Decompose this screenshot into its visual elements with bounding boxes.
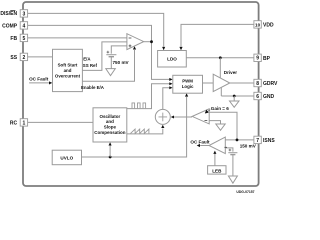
wire LDO output to BP pin9 (186, 57, 254, 59)
svg-text:Oscillator: Oscillator (100, 114, 121, 119)
node GND junction (233, 95, 236, 98)
summing node (155, 109, 170, 124)
wire DIS/EN pin3 to LDO (27, 13, 163, 46)
wire UVLO output (82, 97, 187, 157)
pin 8 GDRV (254, 79, 261, 86)
svg-text:VDD: VDD (263, 22, 274, 28)
svg-text:2: 2 (23, 55, 26, 61)
svg-text:7: 7 (256, 138, 259, 144)
pin 3 DIS/EN (20, 10, 27, 17)
block LDO (158, 51, 187, 68)
net OC Fault into soft start (29, 82, 49, 84)
node BP junction (219, 56, 222, 59)
wire oscillator ramp to summing node (127, 129, 163, 134)
svg-text:LEB: LEB (212, 169, 222, 174)
node ISNS junction (236, 139, 239, 142)
svg-text:Gain = 6: Gain = 6 (211, 106, 229, 111)
node E/A output junction (150, 40, 153, 43)
wire current sense amp to summing node (174, 116, 192, 118)
pin 1 RC (20, 119, 27, 126)
svg-text:Soft Start: Soft Start (58, 63, 78, 68)
svg-text:1: 1 (23, 120, 26, 126)
block soft start and overcurrent (53, 49, 83, 91)
wire PWM logic to driver (203, 82, 214, 84)
wire oscillator clock to PWM logic input 2 (127, 84, 170, 109)
driver U2 (213, 74, 230, 91)
svg-text:750 mV: 750 mV (113, 60, 130, 65)
wire E/A output (144, 41, 152, 43)
svg-text:LDO: LDO (167, 56, 177, 61)
wire LEB to OC comparator (214, 154, 216, 166)
op-amp U1 error amplifier (127, 34, 144, 50)
svg-text:DIS/EN: DIS/EN (0, 11, 17, 17)
wire UVLO to oscillator (109, 146, 111, 158)
block UVLO (52, 150, 81, 165)
wire E/A SS Ref (82, 42, 127, 71)
wire RC pin1 to oscillator (28, 121, 93, 123)
svg-text:Overcurrent: Overcurrent (55, 73, 81, 78)
block LEB (208, 166, 226, 174)
svg-text:5: 5 (23, 36, 26, 42)
svg-text:OC Fault: OC Fault (29, 76, 49, 81)
svg-text:ISNS: ISNS (263, 138, 275, 144)
svg-text:UDG-07157: UDG-07157 (236, 190, 254, 194)
reference V1 750 mV (106, 54, 116, 56)
svg-text:10: 10 (255, 22, 261, 27)
wire FB pin5 to E/A inverting input (27, 37, 127, 39)
pin 2 SS (20, 53, 27, 60)
ground below current sense amp (216, 124, 225, 130)
svg-text:GDRV: GDRV (263, 81, 278, 87)
svg-text:FB: FB (10, 36, 17, 42)
ground below 750mV (106, 69, 116, 76)
wire ISNS to current sense amp input (209, 112, 237, 140)
amplifier U3 current sense gain 6 (192, 109, 209, 124)
svg-text:3: 3 (23, 11, 26, 17)
wire SS pin2 to soft start block (27, 56, 52, 58)
pin 10 VDD (254, 21, 261, 28)
IC outline box (23, 2, 259, 186)
clock waveform glyph (132, 103, 146, 108)
wire BP to driver supply (219, 58, 221, 78)
svg-text:SS: SS (10, 55, 17, 61)
svg-text:and: and (64, 68, 72, 73)
comparator U4 OC fault (209, 137, 225, 154)
svg-text:Slope: Slope (104, 125, 117, 130)
svg-text:BP: BP (263, 56, 271, 62)
wire VDD pin10 to LDO (181, 24, 254, 46)
svg-text:PWM: PWM (182, 79, 193, 84)
reference V2 150 mV (228, 152, 237, 154)
svg-text:9: 9 (256, 56, 259, 62)
svg-text:8: 8 (256, 81, 259, 87)
pin 7 ISNS (254, 136, 261, 143)
wire OC comparator minus to 150mV ref (225, 148, 233, 152)
svg-text:Compensation: Compensation (94, 130, 126, 135)
block PWM logic (173, 75, 203, 93)
svg-text:COMP: COMP (2, 23, 18, 29)
wire driver return to GND pin6 (221, 88, 254, 96)
ground below driver (230, 101, 240, 107)
pin 4 COMP (20, 22, 27, 29)
svg-text:RC: RC (10, 120, 18, 126)
svg-text:4: 4 (23, 23, 26, 29)
node UVLO junction (109, 156, 112, 159)
pin 5 FB (20, 34, 27, 41)
svg-text:Driver: Driver (224, 70, 237, 75)
svg-text:GND: GND (263, 94, 275, 100)
svg-text:OC Fault: OC Fault (190, 139, 210, 144)
ground below 150mV (228, 176, 237, 183)
svg-text:Logic: Logic (182, 84, 194, 89)
svg-text:UVLO: UVLO (60, 155, 73, 160)
wire 750mV ref to E/A non-inverting input (111, 46, 127, 54)
svg-text:6: 6 (256, 94, 259, 100)
wire summing node to PWM logic input 3 (163, 88, 170, 110)
svg-text:150 mV: 150 mV (240, 144, 257, 149)
wire Enable E/A to op-amp enable (82, 50, 134, 81)
svg-text:and: and (106, 119, 114, 124)
pin 6 GND (254, 92, 261, 99)
wire ISNS pin7 (225, 139, 254, 141)
pin 9 BP (254, 54, 261, 61)
wire driver to GDRV pin8 (230, 82, 255, 84)
wire current sense amp minus to ground (209, 121, 220, 124)
svg-text:Enable E/A: Enable E/A (81, 85, 105, 90)
wire COMP pin4 to E/A output and PWM logic input 1 (27, 25, 169, 79)
block oscillator and slope compensation (93, 108, 127, 142)
svg-text:E/A: E/A (83, 57, 91, 62)
ramp waveform glyph (131, 129, 149, 133)
svg-text:SS Ref: SS Ref (83, 63, 98, 68)
net OC Fault output arrow (200, 145, 209, 147)
